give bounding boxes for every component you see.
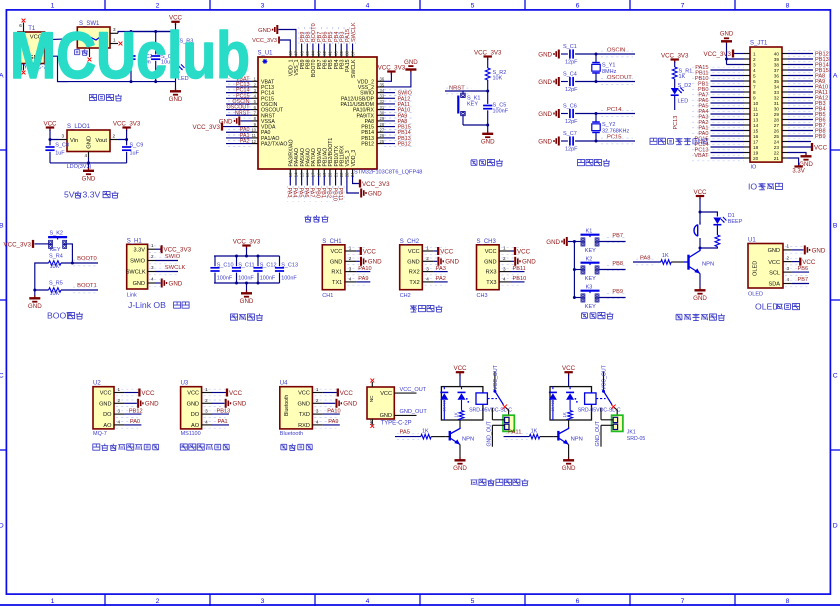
svg-text:PB11: PB11 (513, 266, 526, 272)
svg-text:21: 21 (774, 156, 780, 161)
svg-text:45: 45 (305, 50, 310, 55)
svg-text:RX3: RX3 (486, 270, 497, 276)
title 继电器控制电路 (470, 479, 528, 486)
svg-text:1: 1 (787, 244, 790, 249)
net SWIO H1 pin2 (149, 254, 181, 264)
svg-text:GND: GND (99, 401, 111, 407)
svg-text:4: 4 (753, 68, 756, 73)
ground symbol above JT1 (720, 31, 734, 43)
connector S_CH3 serial (477, 239, 537, 299)
svg-text:23: 23 (774, 145, 780, 150)
svg-text:TYPE-C-2P: TYPE-C-2P (381, 420, 412, 426)
resistor S_R5 10K (49, 280, 63, 297)
svg-text:VCC_3V3: VCC_3V3 (661, 52, 689, 59)
svg-text:PA0: PA0 (130, 419, 140, 425)
ground symbol below JT1 (799, 154, 813, 169)
wire R1 to LED (674, 79, 676, 88)
ground symbol alarm (693, 288, 707, 303)
svg-text:1K: 1K (679, 74, 686, 80)
svg-text:PA5: PA5 (400, 430, 411, 436)
svg-text:37: 37 (350, 50, 355, 55)
svg-text:1N4007: 1N4007 (551, 398, 555, 411)
svg-text:1: 1 (753, 52, 756, 57)
svg-text:46: 46 (299, 50, 304, 55)
svg-text:3: 3 (316, 409, 319, 414)
svg-text:VCC: VCC (693, 189, 707, 196)
label TYPE-C-2P (381, 420, 412, 426)
svg-text:34: 34 (774, 85, 780, 90)
svg-text:S_C13: S_C13 (281, 262, 298, 268)
regulator S_LDO1 (59, 124, 118, 158)
VCC_3V3 symbol filter (233, 238, 261, 248)
VCC_3V3 label at U1 VDDA (192, 123, 222, 131)
svg-text:1K: 1K (562, 412, 567, 417)
ground symbol right of U1 (404, 59, 418, 73)
svg-text:VCC_3V3: VCC_3V3 (3, 241, 31, 248)
svg-text:39: 39 (339, 50, 344, 55)
svg-text:3.3V: 3.3V (792, 169, 804, 175)
svg-text:100nF: 100nF (493, 109, 509, 115)
svg-text:OLED: OLED (755, 302, 779, 312)
svg-text:KEY: KEY (585, 276, 596, 282)
no-ERC mark T2 bottom (370, 424, 374, 428)
svg-text:16: 16 (753, 134, 759, 139)
VCC symbol alarm (693, 189, 707, 199)
svg-text:100nF: 100nF (238, 275, 254, 281)
no-ERC mark T2 top (370, 379, 374, 383)
svg-text:IO: IO (751, 165, 758, 171)
title 5V转3.3V电路 (64, 190, 119, 200)
svg-text:18: 18 (753, 145, 759, 150)
svg-text:GND: GND (343, 401, 357, 408)
svg-text:GND: GND (187, 401, 199, 407)
svg-text:SRD-05VDC-SL-C: SRD-05VDC-SL-C (469, 408, 512, 414)
title OLED显示屏 (755, 302, 800, 312)
svg-text:TX3: TX3 (486, 280, 496, 286)
buzzer LS1 (694, 222, 700, 248)
title 电源电路 (89, 94, 121, 101)
power rail top (131, 31, 176, 33)
svg-text:S_H1: S_H1 (127, 238, 143, 244)
module U4 Bluetooth (280, 381, 358, 438)
svg-text:CH2: CH2 (400, 293, 411, 299)
svg-text:LDO(3V3): LDO(3V3) (67, 164, 92, 170)
svg-text:19: 19 (753, 151, 759, 156)
svg-text:2: 2 (156, 598, 160, 605)
LED S_D2 (671, 83, 692, 104)
svg-text:3.3V: 3.3V (83, 190, 101, 200)
svg-text:3: 3 (426, 266, 429, 271)
svg-text:VCC: VCC (408, 249, 420, 255)
svg-text:LED: LED (678, 98, 689, 104)
resistor 1K alarm base (661, 253, 671, 264)
op-amp U1 chip body STM32F103C8T6 (258, 51, 423, 176)
svg-text:10K: 10K (50, 291, 60, 297)
svg-text:7: 7 (681, 598, 685, 605)
svg-text:2: 2 (426, 256, 429, 261)
svg-text:3: 3 (753, 63, 756, 68)
wire SW1 pin3 to VCC rail (118, 32, 176, 34)
ground symbol OLED pin1 (785, 245, 826, 254)
svg-text:SRD-05: SRD-05 (627, 436, 646, 442)
svg-text:PB2: PB2 (326, 188, 332, 198)
net SWCLK H1 pin3 (149, 265, 186, 275)
svg-text:S_Y2: S_Y2 (602, 122, 615, 128)
svg-text:GND: GND (240, 298, 254, 305)
svg-text:S_C12: S_C12 (260, 262, 277, 268)
U1 top pin wires and rotated net labels (288, 22, 357, 57)
svg-text:5V: 5V (64, 190, 75, 200)
svg-text:PC15: PC15 (607, 134, 622, 140)
svg-text:BEEP: BEEP (728, 219, 743, 225)
wire U1 VSS_1 to GND top (279, 30, 296, 51)
svg-text:3: 3 (205, 409, 208, 414)
JT1 right wires and net labels (788, 51, 830, 140)
svg-text:6: 6 (576, 2, 580, 9)
relay channel 2 (SRD-05VDC-SL-C, Q3 NPN, JK1 connector) (504, 364, 646, 472)
capacitor S_C7 row PC15 (538, 131, 635, 152)
svg-text:VCC: VCC (517, 248, 531, 255)
wire JT1 pins2-3 to GND (725, 43, 728, 65)
svg-text:4: 4 (366, 2, 370, 9)
svg-text:TX2: TX2 (409, 280, 419, 286)
svg-text:U3: U3 (181, 381, 189, 387)
svg-text:PB1: PB1 (320, 188, 326, 198)
svg-text:VDD_3: VDD_3 (351, 150, 357, 167)
svg-text:NRST: NRST (235, 110, 250, 116)
svg-text:K3: K3 (586, 285, 593, 291)
VCC symbol 5V side (43, 120, 57, 130)
svg-text:BOOT1: BOOT1 (77, 283, 97, 289)
svg-text:NC: NC (369, 418, 374, 425)
svg-text:GND: GND (538, 138, 552, 145)
svg-text:S_Y1: S_Y1 (602, 63, 615, 69)
svg-text:32: 32 (774, 96, 780, 101)
svg-text:PB12: PB12 (361, 142, 374, 148)
net PB7 OLED pin4 (785, 277, 809, 287)
svg-text:GND: GND (768, 248, 780, 254)
svg-text:GND: GND (538, 51, 552, 58)
svg-text:SWCLK: SWCLK (126, 270, 146, 276)
resistor S_R1 1K (672, 67, 692, 80)
svg-text:1: 1 (426, 246, 429, 251)
svg-text:RX1: RX1 (331, 270, 342, 276)
svg-text:2: 2 (205, 398, 208, 403)
svg-text:TXD: TXD (299, 412, 310, 418)
svg-text:17: 17 (753, 140, 759, 145)
net PB6 OLED pin3 (785, 266, 809, 276)
svg-text:PB12: PB12 (129, 408, 143, 414)
connector S_CH1 serial (322, 239, 382, 299)
title 滤波电路 (230, 314, 262, 321)
wire to key S_K2 (35, 243, 49, 245)
svg-text:8: 8 (786, 2, 790, 9)
wire JT1 pin21 to 3.3V (788, 158, 799, 166)
svg-text:PA5: PA5 (297, 188, 303, 198)
svg-text:OSCOUT: OSCOUT (607, 75, 632, 81)
wire to collector node (700, 247, 717, 248)
svg-text:29: 29 (774, 112, 780, 117)
svg-text:6: 6 (753, 79, 756, 84)
svg-text:2: 2 (113, 134, 116, 139)
svg-text:VCC: VCC (330, 249, 342, 255)
key K1 (573, 229, 626, 254)
wire R5 to BOOT1 (61, 289, 98, 291)
svg-text:PA1: PA1 (218, 419, 228, 425)
svg-text:KEY: KEY (585, 304, 596, 310)
wire gnd to rail (568, 241, 574, 243)
svg-text:37: 37 (774, 68, 780, 73)
svg-text:GND: GND (407, 259, 419, 265)
svg-text:11: 11 (753, 107, 758, 112)
svg-text:38: 38 (345, 50, 350, 55)
svg-text:VCC_3V3: VCC_3V3 (252, 38, 277, 44)
svg-text:100nF: 100nF (260, 275, 276, 281)
svg-text:Bluetooth: Bluetooth (280, 431, 303, 437)
wire to rail (246, 248, 248, 256)
wire U1 VDD_3 to VCC_3V3 bottom (353, 176, 359, 184)
svg-text:JK1: JK1 (627, 429, 636, 435)
power VCC symbol (169, 15, 183, 25)
title 晶振电路 (577, 159, 609, 166)
connector T1 (TYPE-C-2P) (18, 23, 47, 71)
wire R2 to node (487, 80, 489, 91)
svg-text:S_LDO1: S_LDO1 (67, 124, 91, 130)
svg-text:1: 1 (503, 246, 506, 251)
svg-text:6: 6 (576, 598, 580, 605)
filter bottom rail (214, 282, 280, 284)
capacitor S_C8 1uF (45, 138, 69, 163)
svg-text:PA10: PA10 (327, 408, 340, 414)
svg-text:GND: GND (546, 239, 560, 246)
svg-text:VCC: VCC (485, 249, 497, 255)
label TYPE-C-2P (20, 65, 51, 71)
svg-text:1K: 1K (422, 428, 429, 434)
filter top rail (214, 255, 280, 257)
svg-text:2: 2 (156, 2, 160, 9)
svg-text:15: 15 (753, 129, 759, 134)
svg-text:4: 4 (349, 277, 352, 282)
svg-text:1K: 1K (531, 428, 538, 434)
svg-text:VCC: VCC (340, 390, 354, 397)
wire VCC to Vin (50, 130, 59, 140)
node NRST wire (445, 90, 488, 92)
capacitor S_C2 100n (126, 30, 152, 83)
svg-text:Vin: Vin (70, 138, 78, 144)
wire T1 GND down to ground rail (47, 56, 68, 81)
label LDO(3V3) (67, 164, 92, 170)
svg-text:B: B (833, 223, 838, 230)
svg-text:VCC_3V3: VCC_3V3 (362, 181, 390, 188)
svg-text:CH3: CH3 (477, 293, 488, 299)
wire VCC to rail (175, 24, 177, 38)
title J-Link OB接口 (128, 300, 189, 310)
svg-text:GND: GND (484, 259, 496, 265)
svg-text:39: 39 (774, 57, 780, 62)
ground symbol BOOT (28, 296, 42, 311)
svg-text:C: C (833, 373, 838, 380)
title IO拓展口 (748, 181, 783, 191)
svg-text:PB13: PB13 (217, 408, 231, 414)
svg-text:VCC_OUT: VCC_OUT (493, 364, 499, 390)
svg-text:S_CH2: S_CH2 (400, 239, 420, 245)
svg-text:27: 27 (774, 123, 780, 128)
key K3 (573, 285, 626, 310)
svg-text:NPN: NPN (571, 436, 583, 442)
ground symbol buttons (546, 237, 567, 246)
wire to GND reset (487, 125, 489, 132)
svg-text:3: 3 (62, 134, 65, 139)
connector S_CH2 serial (400, 239, 460, 299)
wire U1 VSS_3 to GND bottom (347, 176, 359, 193)
capacitor S_C3 10uF (151, 30, 175, 83)
svg-text:4: 4 (316, 420, 319, 425)
svg-text:GND: GND (720, 31, 734, 37)
capacitor S_C4 row OSCOUT (538, 72, 635, 93)
svg-text:GND_OUT: GND_OUT (486, 420, 492, 446)
svg-text:VCC: VCC (562, 365, 576, 372)
svg-text:GND: GND (169, 96, 183, 103)
button common rail (573, 242, 575, 298)
LED D1 BEEP (713, 213, 742, 225)
title 复位电路 (471, 159, 503, 166)
resistor in beeper branch (715, 235, 720, 247)
wire rail to GND filter (246, 283, 248, 291)
svg-text:GND: GND (445, 259, 459, 266)
svg-text:AO: AO (103, 423, 112, 429)
svg-text:S_R5: S_R5 (49, 280, 63, 286)
crystal S_Y1 8MHz (592, 53, 617, 84)
svg-text:SWCLK: SWCLK (351, 22, 357, 42)
ground symbol H1 pin4 (149, 279, 183, 288)
capacitor S_C1 row OSCIN (538, 44, 635, 65)
svg-text:VCC: VCC (43, 120, 57, 127)
svg-text:PA9: PA9 (358, 276, 368, 282)
title 一氧化碳检测模块 (93, 444, 159, 451)
svg-text:S_C1: S_C1 (563, 44, 577, 50)
svg-text:VCC_3V3: VCC_3V3 (703, 51, 731, 58)
sensor U2 MQ-7 CO detector (93, 381, 159, 438)
svg-text:PB11: PB11 (337, 188, 343, 201)
wire rail to GND (175, 82, 177, 89)
title BOOT电路 (47, 311, 83, 321)
svg-text:3.3V: 3.3V (133, 247, 145, 253)
svg-text:5: 5 (471, 598, 475, 605)
svg-text:3: 3 (349, 266, 352, 271)
svg-text:1: 1 (118, 387, 121, 392)
wire R3 to LED (175, 46, 177, 65)
svg-text:PA3: PA3 (286, 188, 292, 198)
svg-text:Link: Link (127, 293, 137, 299)
svg-text:13: 13 (753, 118, 759, 123)
svg-text:GND: GND (330, 259, 342, 265)
VCC label JT1 pin23 (788, 143, 828, 151)
svg-text:S_K2: S_K2 (50, 230, 63, 236)
svg-text:20: 20 (753, 156, 759, 161)
svg-text:GND: GND (812, 247, 826, 254)
svg-text:S_U1: S_U1 (258, 51, 274, 57)
svg-text:D: D (833, 523, 838, 530)
svg-text:42: 42 (322, 50, 327, 55)
ground symbol power circuit (169, 89, 183, 104)
svg-text:3: 3 (261, 598, 265, 605)
svg-text:38: 38 (774, 63, 780, 68)
wire R4 to BOOT0 (61, 262, 98, 264)
wire T1 VCC to SW1 pin2 (47, 38, 69, 41)
svg-text:BOOT0: BOOT0 (77, 256, 97, 262)
capacitor S_C5 100nF (483, 91, 509, 125)
svg-text:4: 4 (151, 277, 154, 282)
svg-text:3: 3 (787, 266, 790, 271)
red arrow at SW1 pin1 (119, 42, 123, 46)
svg-text:VCC: VCC (363, 248, 377, 255)
svg-text:1: 1 (51, 598, 55, 605)
svg-text:24: 24 (774, 140, 780, 145)
VCC_3V3 label JT1 pin1 (703, 50, 733, 58)
svg-text:PA10: PA10 (358, 266, 371, 272)
svg-text:S_C8: S_C8 (55, 143, 69, 149)
svg-text:GND: GND (87, 136, 93, 149)
wire to GND BOOT (34, 290, 36, 296)
svg-text:GND: GND (233, 401, 247, 408)
transistor Q1 NPN alarm (684, 248, 714, 274)
U1 bottom pin wires and rotated net labels (286, 169, 355, 202)
svg-text:8: 8 (786, 598, 790, 605)
wire to R1 (674, 62, 676, 67)
svg-text:K2: K2 (586, 257, 593, 263)
svg-text:S_C11: S_C11 (238, 262, 254, 268)
wire VCC down (699, 198, 701, 212)
svg-text:GND: GND (481, 139, 495, 146)
VCC label OLED pin2 (785, 258, 816, 266)
resistor S_R2 10K (485, 68, 506, 82)
svg-text:A: A (833, 73, 838, 80)
VCC_3V3 label BOOT (3, 240, 33, 248)
svg-text:GND: GND (169, 280, 183, 287)
svg-text:VCC_OUT: VCC_OUT (601, 364, 607, 390)
capacitor S_C9 1uF (122, 138, 143, 163)
svg-text:2: 2 (118, 398, 121, 403)
svg-text:8: 8 (753, 90, 756, 95)
svg-text:100nF: 100nF (281, 275, 297, 281)
wire LED to ground rail (175, 73, 177, 82)
wire left rail BOOT (35, 263, 49, 290)
svg-text:S_R4: S_R4 (49, 253, 63, 259)
ground symbol bottom of U1 (361, 189, 382, 198)
svg-text:28: 28 (774, 118, 780, 123)
ground rail LDO (50, 162, 127, 164)
svg-text:NPN: NPN (462, 436, 474, 442)
svg-text:PA3: PA3 (436, 266, 446, 272)
svg-text:36: 36 (774, 74, 780, 79)
capacitor S_C6 row PC14 (538, 104, 635, 125)
svg-text:25: 25 (774, 134, 780, 139)
svg-text:1uF: 1uF (130, 151, 140, 157)
svg-text:SCL: SCL (769, 270, 780, 276)
svg-text:B: B (0, 223, 4, 230)
svg-text:31: 31 (774, 101, 780, 106)
svg-text:4: 4 (503, 277, 506, 282)
wire U1 VDD_1 to VCC_3V3 top (280, 40, 290, 50)
svg-text:KEY: KEY (585, 248, 596, 254)
svg-text:1: 1 (205, 387, 208, 392)
svg-text:1uF: 1uF (55, 151, 65, 157)
ground symbol at U1 VSSA (219, 116, 240, 125)
svg-text:PC13: PC13 (673, 116, 679, 130)
svg-text:DO: DO (191, 412, 200, 418)
emitter wire down (699, 274, 701, 289)
wire U1 VSS_2 to GND (377, 71, 411, 87)
